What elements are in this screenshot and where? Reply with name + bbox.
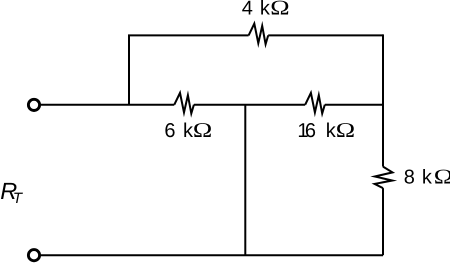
svg-text:Ω: Ω xyxy=(193,118,212,142)
svg-text:RT: RT xyxy=(0,178,24,207)
svg-text:Ω: Ω xyxy=(270,0,289,19)
svg-text:16k: 16k xyxy=(297,120,336,142)
resistor 4k symbol xyxy=(249,24,269,45)
svg-text:Ω: Ω xyxy=(434,165,450,189)
terminal top-left xyxy=(28,99,39,110)
svg-text:6k: 6k xyxy=(164,120,194,142)
wire right vertical lower xyxy=(382,188,384,255)
wire middle right of 16k xyxy=(325,104,383,106)
svg-text:8k: 8k xyxy=(404,167,433,189)
wire bottom horizontal xyxy=(41,254,383,256)
wire middle between 6k and 16k xyxy=(194,104,305,106)
svg-text:Ω: Ω xyxy=(336,118,355,142)
svg-text:4k: 4k xyxy=(242,0,271,19)
wire top horizontal right xyxy=(268,34,383,36)
wire middle-left horizontal xyxy=(41,104,174,106)
terminal bottom-left xyxy=(28,250,39,261)
resistor 6k symbol xyxy=(174,93,194,114)
wire right vertical upper xyxy=(382,34,384,166)
resistor 8k symbol vertical xyxy=(375,167,393,189)
wire top horizontal left xyxy=(128,34,249,36)
wire left vertical riser xyxy=(128,35,130,104)
resistor 16k symbol xyxy=(305,93,325,114)
wire middle vertical drop xyxy=(244,105,246,256)
